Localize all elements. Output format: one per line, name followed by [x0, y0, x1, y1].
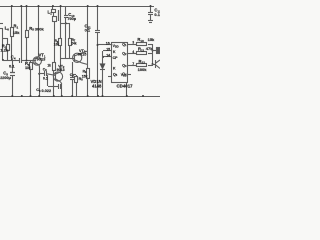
resistor R5: [26, 6, 29, 60]
capacitor C11: [95, 6, 100, 96]
svg-text:0.1: 0.1: [85, 27, 91, 32]
svg-text:R9: R9: [83, 70, 87, 75]
capacitor C5 electrolytic: [10, 60, 15, 96]
node rail dot at x21: [20, 5, 22, 7]
svg-text:CP: CP: [113, 56, 119, 60]
IC U1 CD4017 box: [112, 43, 128, 83]
svg-text:C4: C4: [11, 55, 16, 61]
node pin14 junction: [102, 56, 104, 58]
wire diode feed vertical: [102, 51, 104, 64]
node L1 right top dot: [60, 5, 62, 7]
node C11 rail dot: [97, 5, 99, 7]
node VD ground dot: [102, 95, 104, 97]
svg-text:47k: 47k: [146, 46, 153, 51]
svg-text:15k: 15k: [13, 30, 20, 35]
wire pin14 left: [103, 56, 112, 58]
wire bottom ground rail: [0, 96, 160, 98]
transistor VT3: [73, 51, 88, 65]
svg-text:Q2: Q2: [122, 52, 127, 57]
svg-text:14: 14: [106, 54, 110, 58]
svg-text:9013: 9013: [57, 68, 65, 72]
node tap line ground dot: [53, 95, 55, 97]
svg-text:R12: R12: [139, 59, 146, 65]
svg-text:0.1: 0.1: [43, 77, 48, 81]
svg-text:300k: 300k: [35, 26, 45, 31]
wire after C4 to base: [22, 60, 36, 62]
svg-text:Q3: Q3: [122, 64, 127, 69]
node R6 ground dot: [30, 95, 32, 97]
node C11 ground dot: [97, 95, 99, 97]
wire base line horizontal: [3, 60, 19, 62]
node bus dot lower: [152, 63, 154, 65]
wire input line down: [2, 28, 4, 60]
svg-text:1.2k: 1.2k: [0, 48, 9, 53]
node ground dot at x22: [21, 95, 23, 97]
wire C10 junction down: [65, 23, 67, 58]
diode VD 1N4148: [100, 64, 105, 96]
node C7 ground dot: [71, 95, 73, 97]
resistor R6b on winding line: [59, 23, 62, 72]
svg-text:9013: 9013: [37, 57, 47, 62]
capacitor C4 series coupling: [20, 58, 22, 63]
svg-text:CD4017: CD4017: [117, 84, 134, 89]
wire IC pin stub Q2: [128, 53, 137, 55]
wire IC pin stub Q1: [128, 44, 137, 46]
capacitor C12 top right: [148, 6, 153, 20]
svg-text:24k: 24k: [71, 41, 77, 45]
svg-text:4: 4: [132, 50, 134, 54]
svg-text:7: 7: [132, 62, 134, 66]
node ground dot x143: [142, 95, 144, 97]
node C5 ground dot: [11, 95, 13, 97]
LED DS2 partial at edge: [152, 60, 160, 69]
node x88 rail dot: [87, 5, 89, 7]
svg-text:0.1: 0.1: [154, 12, 160, 17]
resistor R12: [137, 64, 153, 67]
node C5 top junction: [11, 59, 13, 61]
wire IC pin stub Q3: [128, 65, 137, 67]
wire tank link horizontal: [61, 23, 70, 25]
node VT1 collector rail dot: [38, 5, 40, 7]
wire from rail to C4: [21, 6, 23, 58]
node R5 rail dot: [26, 5, 28, 7]
svg-text:L1: L1: [48, 10, 53, 16]
capacitor C10: [64, 6, 68, 23]
transistor VT2: [53, 72, 62, 96]
ground symbol for C12: [148, 21, 153, 23]
svg-text:R11: R11: [138, 47, 145, 53]
wire main vertical x88: [87, 6, 89, 68]
resistor R8b small box on tap line: [53, 63, 56, 97]
resistor R2: [3, 38, 10, 60]
svg-text:3: 3: [132, 41, 134, 45]
svg-text:4148: 4148: [92, 84, 102, 89]
LED DS1 partial at edge: [152, 48, 160, 54]
transformer L1 tapped winding: [52, 6, 61, 63]
capacitor C8 series to VT2 base: [39, 71, 56, 76]
svg-text:R1: R1: [14, 24, 19, 30]
wire interstage horizontal: [61, 58, 75, 60]
svg-text:0.1: 0.1: [9, 64, 15, 69]
svg-text:15: 15: [106, 48, 110, 52]
svg-text:2200μ: 2200μ: [0, 76, 11, 80]
svg-text:16: 16: [106, 42, 110, 46]
wire IC vss ground: [126, 83, 128, 96]
node VT2 emitter ground dot: [61, 95, 63, 97]
svg-text:1M: 1M: [25, 65, 31, 70]
svg-text:Q5: Q5: [113, 73, 118, 78]
svg-text:C6 0.022: C6 0.022: [36, 88, 51, 93]
capacitor C1 input plates at left edge: [0, 24, 3, 29]
wire pin16 to C11 line: [98, 44, 112, 46]
wire pin15 left: [103, 50, 112, 52]
node C10 junction dot: [65, 22, 67, 24]
svg-text:VDD: VDD: [113, 44, 119, 49]
resistor R8: [72, 75, 78, 97]
node IC vss ground dot: [126, 95, 128, 97]
svg-text:15k: 15k: [148, 37, 155, 42]
node input junction: [2, 59, 4, 61]
node R9 ground dot: [87, 95, 89, 97]
svg-text:R5: R5: [29, 26, 34, 32]
node C12 rail dot: [150, 5, 152, 7]
svg-text:Q4: Q4: [122, 72, 127, 77]
node R1 top dot: [11, 5, 13, 7]
svg-text:R10: R10: [137, 37, 144, 43]
transistor VT1: [33, 6, 41, 96]
svg-text:100k: 100k: [138, 67, 148, 72]
wire top supply rail: [0, 6, 154, 8]
resistor R1: [11, 6, 14, 60]
node C11 pin16 dot: [97, 44, 99, 46]
svg-text:700p: 700p: [67, 17, 76, 21]
svg-text:10k: 10k: [54, 42, 60, 46]
capacitor C7: [70, 62, 74, 96]
svg-text:9015: 9015: [78, 53, 86, 57]
node R5 base dot: [26, 60, 28, 62]
svg-text:15k: 15k: [82, 75, 88, 79]
resistor R6 base to ground: [30, 60, 33, 96]
wire right bus: [152, 44, 154, 66]
node VT1 emitter ground dot: [38, 95, 40, 97]
resistor R10: [137, 43, 153, 46]
node L1 left top dot: [52, 5, 54, 7]
resistor R11: [137, 52, 153, 55]
resistor R9: [87, 69, 90, 97]
capacitor C6 series low: [48, 75, 63, 89]
wire IC pin13 stub: [108, 76, 112, 78]
resistor R7: [69, 23, 72, 58]
svg-text:1k: 1k: [47, 63, 51, 67]
node VT1 emitter tap dot: [38, 73, 40, 75]
wire IC pin stub Q4 short: [128, 74, 131, 76]
node bus dot upper: [152, 50, 154, 52]
svg-text:L0: L0: [5, 26, 10, 32]
